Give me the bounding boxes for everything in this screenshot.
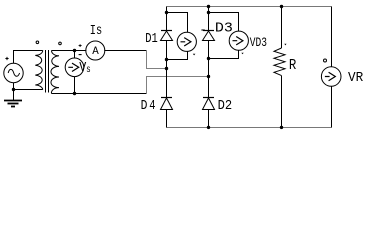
R branch top wire bbox=[281, 7, 283, 49]
junction node secondary top / Vs bbox=[73, 49, 76, 52]
R branch bottom wire bbox=[281, 76, 283, 128]
svg-text:Is: Is bbox=[90, 23, 102, 39]
svg-text:A: A bbox=[92, 46, 99, 58]
wire VD3 bottom connection bbox=[209, 50, 239, 58]
wire VD1 bottom connection bbox=[167, 51, 188, 59]
junction R bottom on rail bbox=[280, 126, 283, 129]
junction node A on D1-D4 line bbox=[165, 67, 168, 70]
arrow inside Vs bbox=[68, 63, 78, 71]
wire ground node to primary bottom bbox=[14, 89, 43, 91]
voltmeter VR bbox=[321, 67, 341, 87]
svg-text:D: D bbox=[141, 99, 148, 114]
ground bbox=[4, 100, 22, 102]
wire VD3 top connection bbox=[209, 13, 239, 32]
junction VD3 top bbox=[207, 11, 210, 14]
small o mark of VR bbox=[324, 59, 327, 62]
VR branch top wire bbox=[331, 7, 333, 67]
transformer T1 secondary winding bbox=[51, 51, 59, 94]
svg-text:R: R bbox=[289, 58, 297, 74]
junction VD3 bottom bbox=[207, 57, 210, 60]
wire source bottom to ground node bbox=[13, 83, 15, 101]
voltmeter Vs bbox=[65, 58, 84, 77]
VR branch bottom wire bbox=[331, 86, 333, 127]
AC source V1 bbox=[4, 63, 23, 82]
svg-text:D1: D1 bbox=[145, 32, 158, 47]
phasing dot primary bbox=[36, 41, 39, 44]
junction D2 bottom on rail bbox=[207, 126, 210, 129]
junction R top on rail bbox=[280, 5, 283, 8]
resistor R bbox=[274, 48, 285, 76]
plus polarity mark of source bbox=[5, 57, 8, 60]
junction node B on D3-D2 line bbox=[207, 75, 210, 78]
phasing dot secondary bbox=[59, 42, 62, 45]
wire source top to transformer primary top bbox=[14, 51, 43, 64]
diode D1 bbox=[161, 30, 172, 32]
arrow inside VR bbox=[325, 72, 335, 80]
wire node B step up and across bbox=[147, 77, 209, 94]
right bridge vertical wire (D3/D2 branch) bbox=[208, 7, 210, 128]
wire VD1 top connection bbox=[167, 13, 188, 33]
wire Vs bottom stub bbox=[74, 77, 76, 94]
wire secondary top to ammeter bbox=[52, 50, 87, 52]
sine wave inside source bbox=[8, 69, 19, 76]
polarity tick VD1 bottom bbox=[193, 54, 196, 56]
diode D2 bbox=[203, 97, 214, 99]
arrow inside VD1 bbox=[181, 38, 191, 46]
svg-text:D3: D3 bbox=[215, 20, 233, 36]
junction node secondary bottom / Vs bbox=[73, 92, 76, 95]
minus mark of Vs (below wire) bbox=[79, 54, 82, 56]
transformer T1 primary winding bbox=[35, 51, 43, 90]
plus mark of Vs (above wire) bbox=[79, 44, 82, 47]
svg-text:VR: VR bbox=[348, 70, 364, 86]
bottom rail (-) bbox=[167, 127, 332, 129]
wire secondary bottom to node B step bbox=[52, 93, 147, 95]
wire node A step down bbox=[147, 51, 167, 69]
left bridge vertical wire (D1/D4 branch) bbox=[166, 7, 168, 128]
diode D3 bbox=[203, 30, 214, 32]
wire ammeter to node A step bbox=[104, 50, 146, 52]
junction VD1 top bbox=[165, 11, 168, 14]
junction VD1 bottom bbox=[165, 58, 168, 61]
polarity tick VD3 bottom bbox=[241, 53, 243, 55]
svg-text:VD3: VD3 bbox=[250, 35, 267, 50]
arrow inside VD3 bbox=[233, 37, 243, 45]
junction D3 top on rail bbox=[207, 5, 210, 8]
junction ground node bbox=[12, 88, 15, 91]
svg-text:s: s bbox=[86, 64, 91, 76]
top rail (+) bbox=[167, 6, 332, 8]
minus mark of VD1 bbox=[201, 29, 204, 31]
polarity tick near R top bbox=[284, 44, 286, 46]
voltmeter VD3 bbox=[229, 31, 248, 50]
transformer core bbox=[46, 50, 49, 93]
voltmeter VD1 bbox=[177, 32, 196, 51]
wire Vs top stub bbox=[74, 51, 76, 59]
diode D4 bbox=[161, 97, 172, 99]
svg-text:D2: D2 bbox=[218, 99, 233, 114]
ammeter Is bbox=[86, 41, 105, 60]
svg-text:4: 4 bbox=[149, 99, 155, 114]
